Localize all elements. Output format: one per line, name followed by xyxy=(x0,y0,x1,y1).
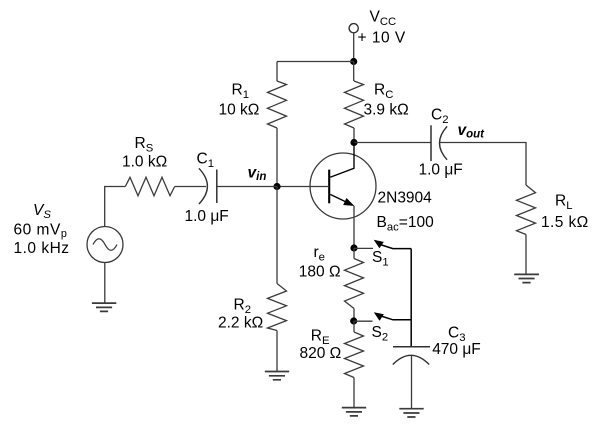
wire collector node to C2 xyxy=(354,142,431,144)
junction collector node xyxy=(350,139,357,146)
wire R1 to vin xyxy=(276,128,278,187)
ground R2 xyxy=(265,372,289,380)
wire Vcc to top node xyxy=(353,33,355,62)
resistor RC xyxy=(345,81,364,128)
wire down to R1 xyxy=(276,62,278,82)
svg-text:Bac=100: Bac=100 xyxy=(377,214,435,234)
wire VS to RS xyxy=(105,187,126,227)
ground C3 xyxy=(399,409,423,417)
switch blade S1 xyxy=(374,240,412,249)
capacitor C3 xyxy=(393,347,430,365)
capacitor C2 xyxy=(431,125,447,161)
label C3 value xyxy=(432,324,481,358)
node vout label xyxy=(458,122,486,141)
label Vcc xyxy=(358,8,406,46)
wire RL to ground xyxy=(525,235,527,275)
Vcc terminal circle xyxy=(349,24,358,33)
svg-text:10 kΩ: 10 kΩ xyxy=(219,102,260,119)
label RE value xyxy=(300,328,342,363)
svg-text:470 μF: 470 μF xyxy=(432,341,481,358)
switch blade S2 xyxy=(374,312,411,321)
node vin xyxy=(248,165,281,191)
svg-text:+ 10 V: + 10 V xyxy=(358,30,406,47)
resistor RS xyxy=(125,177,174,195)
label 2N3904 xyxy=(377,189,435,233)
wire vin to R2 xyxy=(276,187,278,284)
wire C2 to RL xyxy=(440,143,526,186)
label RC value xyxy=(364,82,409,119)
svg-text:1.0 kHz: 1.0 kHz xyxy=(14,240,70,257)
wire RS to C1 xyxy=(175,186,206,188)
wire C3 to ground xyxy=(411,356,413,409)
wire RC to collector node xyxy=(353,128,355,143)
svg-text:1.0 μF: 1.0 μF xyxy=(185,208,229,225)
label R1 value xyxy=(219,82,260,119)
svg-text:2N3904: 2N3904 xyxy=(378,189,433,206)
node S2 xyxy=(350,317,388,343)
transistor Q1 2N3904 xyxy=(310,143,376,249)
svg-text:180 Ω: 180 Ω xyxy=(299,263,341,280)
label RL value xyxy=(541,193,589,232)
ground VS xyxy=(92,303,116,311)
label VS value xyxy=(14,202,70,257)
capacitor C1 xyxy=(199,168,217,204)
svg-text:1.0 kΩ: 1.0 kΩ xyxy=(122,154,167,171)
svg-text:2.2 kΩ: 2.2 kΩ xyxy=(218,315,263,332)
wire VS to ground xyxy=(104,263,106,303)
wire RE to ground xyxy=(353,378,355,408)
label C2 value xyxy=(419,107,463,179)
wire switch rail to C3 xyxy=(410,249,412,347)
svg-text:1.0 μF: 1.0 μF xyxy=(419,162,463,179)
wire top horizontal to R1 xyxy=(277,61,354,63)
node S1 xyxy=(350,244,388,268)
label RS value xyxy=(122,135,167,171)
wire base to transistor xyxy=(277,186,329,188)
resistor R1 xyxy=(268,81,287,128)
wire C1 to vin xyxy=(217,186,277,188)
label R2 value xyxy=(218,297,263,332)
label C1 value xyxy=(185,151,229,226)
label re value xyxy=(299,244,341,281)
svg-text:1.5 kΩ: 1.5 kΩ xyxy=(541,214,589,231)
resistor RL xyxy=(517,185,536,235)
ground RE xyxy=(342,408,366,416)
resistor RE xyxy=(345,321,364,378)
wire Vcc node to RC xyxy=(353,62,355,82)
svg-text:820 Ω: 820 Ω xyxy=(300,345,342,362)
svg-text:60 mVp: 60 mVp xyxy=(14,221,68,240)
resistor R2 xyxy=(268,284,287,331)
voltage source VS xyxy=(87,227,123,263)
ground RL xyxy=(514,274,539,282)
resistor re xyxy=(345,248,364,321)
wire R2 to ground xyxy=(276,331,278,372)
svg-text:3.9 kΩ: 3.9 kΩ xyxy=(364,102,409,119)
junction top node xyxy=(350,58,357,65)
